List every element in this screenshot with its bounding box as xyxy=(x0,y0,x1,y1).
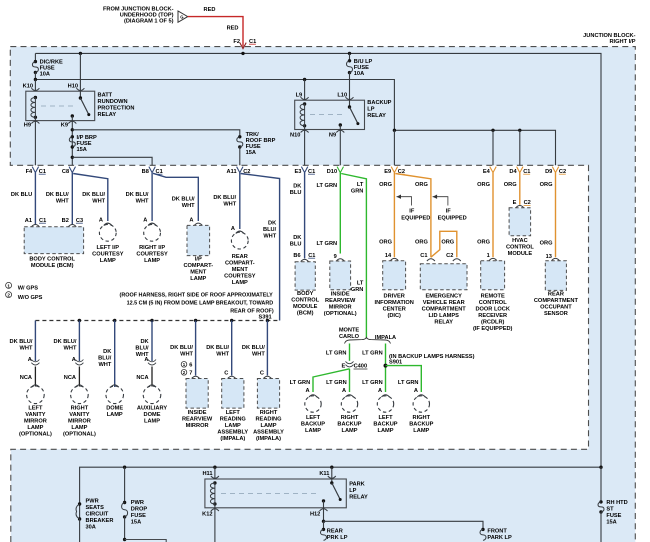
wire: C8 branch to left I/P courtesy lamp xyxy=(73,174,108,222)
svg-text:MIRROR: MIRROR xyxy=(186,423,209,429)
wire: D9 to rear compartment occupant sensor pin 13 (org) xyxy=(555,173,557,258)
inside rearview mirror box xyxy=(186,379,208,409)
node: feed from top xyxy=(599,466,602,469)
svg-text:REAR: REAR xyxy=(232,254,248,260)
node: L9 tap xyxy=(303,78,306,81)
svg-text:WHT: WHT xyxy=(98,362,111,368)
svg-text:LP: LP xyxy=(367,107,374,113)
svg-text:REARVIEW: REARVIEW xyxy=(182,417,213,423)
svg-text:N9: N9 xyxy=(329,132,336,138)
svg-text:LEFT: LEFT xyxy=(28,406,43,412)
wire+lamp: right vanity mirror lamp (optional) xyxy=(78,321,80,362)
svg-text:WHT: WHT xyxy=(92,199,105,205)
svg-text:PWR: PWR xyxy=(131,500,144,506)
driver information center (DIC) box xyxy=(383,261,406,290)
svg-text:LAMP: LAMP xyxy=(305,428,321,434)
svg-text:(IMPALA): (IMPALA) xyxy=(220,436,245,442)
node: H10 tap xyxy=(79,52,82,55)
svg-text:MONTE: MONTE xyxy=(339,328,360,334)
svg-text:ASSEMBLY: ASSEMBLY xyxy=(217,430,248,436)
svg-text:RELAY: RELAY xyxy=(434,319,453,325)
svg-text:GRN: GRN xyxy=(351,287,364,293)
relay: park lp relay box xyxy=(205,479,346,508)
svg-text:H12: H12 xyxy=(310,511,320,517)
svg-text:SENSOR: SENSOR xyxy=(544,311,568,317)
svg-text:C1: C1 xyxy=(420,253,427,259)
svg-text:BLU/: BLU/ xyxy=(98,356,112,362)
pin N9 xyxy=(339,125,341,165)
svg-text:PRK LP: PRK LP xyxy=(327,535,348,541)
connector D9 C2 xyxy=(552,167,558,173)
svg-text:ASSEMBLY: ASSEMBLY xyxy=(253,430,284,436)
svg-text:FUSE: FUSE xyxy=(131,513,146,519)
svg-text:B2: B2 xyxy=(62,218,69,224)
node: B8 branch xyxy=(71,156,74,159)
note: if equipped (right) xyxy=(433,197,448,206)
svg-text:K12: K12 xyxy=(202,511,212,517)
connector E9 C2 xyxy=(391,167,397,173)
svg-text:COURTESY: COURTESY xyxy=(92,251,124,257)
svg-text:L9: L9 xyxy=(296,92,303,98)
svg-text:HVAC: HVAC xyxy=(512,238,528,244)
wire: S901 to right backup lamp 2 xyxy=(386,366,422,392)
svg-text:RELAY: RELAY xyxy=(349,495,368,501)
svg-text:NCA: NCA xyxy=(64,375,76,381)
relay: backup lp relay box xyxy=(295,100,365,129)
svg-text:WHT: WHT xyxy=(136,199,149,205)
svg-text:H11: H11 xyxy=(202,471,212,477)
svg-text:K10: K10 xyxy=(23,83,33,89)
svg-text:DK BLU/: DK BLU/ xyxy=(46,192,69,198)
node: E4 tap xyxy=(491,129,494,132)
svg-text:2: 2 xyxy=(7,293,10,298)
svg-text:H9: H9 xyxy=(24,122,31,128)
wire: B8 branch to I/P compartment lamp xyxy=(153,173,198,221)
wire: bottom feed bus xyxy=(80,467,601,521)
svg-text:CIRCUIT: CIRCUIT xyxy=(86,512,109,518)
svg-text:E: E xyxy=(513,200,517,206)
svg-text:READING: READING xyxy=(220,417,247,423)
svg-text:A: A xyxy=(99,217,103,223)
wire RED from underhood junction block xyxy=(188,17,243,47)
wire: org distribution line xyxy=(394,130,555,165)
svg-text:RUNDOWN: RUNDOWN xyxy=(98,99,128,105)
svg-text:K11: K11 xyxy=(319,471,329,477)
left reading lamp assembly box xyxy=(222,379,244,409)
svg-text:LID LAMPS: LID LAMPS xyxy=(428,313,459,319)
svg-text:COURTESY: COURTESY xyxy=(224,274,256,280)
svg-text:NCA: NCA xyxy=(136,375,148,381)
svg-text:LEFT: LEFT xyxy=(306,415,321,421)
svg-text:RELAY: RELAY xyxy=(98,112,117,118)
svg-text:BACKUP: BACKUP xyxy=(367,100,391,106)
wire: C400 to right backup lamp xyxy=(349,369,351,392)
svg-text:IF: IF xyxy=(409,208,415,214)
wire: E9 branch to emergency relay C1 xyxy=(395,174,431,258)
svg-text:LAMP: LAMP xyxy=(261,423,277,429)
splice S391 dashed bus xyxy=(35,320,279,322)
node: pwr drop output xyxy=(123,538,126,541)
svg-text:1: 1 xyxy=(487,253,490,259)
svg-text:LT GRN: LT GRN xyxy=(362,351,383,357)
svg-text:CONTROL: CONTROL xyxy=(506,245,534,251)
svg-text:RH HTD: RH HTD xyxy=(606,500,627,506)
svg-text:BLU/: BLU/ xyxy=(263,227,277,233)
svg-text:S901: S901 xyxy=(389,360,402,366)
svg-text:LEFT: LEFT xyxy=(226,410,241,416)
svg-text:RED: RED xyxy=(204,7,216,13)
wire: inside rearview mirror (dk blu/wht) xyxy=(195,321,197,376)
svg-text:RED: RED xyxy=(227,26,239,32)
node: pwr drop fuse tap xyxy=(123,466,126,469)
pin H12 xyxy=(323,501,325,521)
wire: left reading lamp assembly (dk blu/wht) xyxy=(231,321,233,376)
wire: D4 to HVAC pin E (org) xyxy=(519,173,521,205)
remote control door lock receiver box xyxy=(481,261,505,290)
svg-text:COMPARTMENT: COMPARTMENT xyxy=(422,306,467,312)
relay switch xyxy=(79,96,82,99)
svg-text:ORG: ORG xyxy=(415,240,428,246)
svg-text:VEHICLE REAR: VEHICLE REAR xyxy=(423,300,465,306)
emergency vehicle rear compartment lid lamps relay box xyxy=(420,264,467,290)
connector E4 xyxy=(490,167,496,173)
svg-text:DK: DK xyxy=(140,339,149,345)
inside rearview mirror (optional) box xyxy=(330,261,351,290)
svg-text:DK BLU/: DK BLU/ xyxy=(206,345,229,351)
svg-text:REAR: REAR xyxy=(548,292,564,298)
svg-text:D9: D9 xyxy=(545,169,552,175)
node: E9 junction xyxy=(393,129,396,132)
svg-text:RIGHT: RIGHT xyxy=(71,406,89,412)
svg-text:PARK LP: PARK LP xyxy=(487,535,512,541)
svg-text:LT GRN: LT GRN xyxy=(398,380,419,386)
connector D4 C1 xyxy=(517,167,523,173)
pin K12 xyxy=(214,504,216,542)
svg-text:LT GRN: LT GRN xyxy=(290,380,311,386)
svg-text:B8: B8 xyxy=(142,169,149,175)
svg-text:WHT: WHT xyxy=(20,346,33,352)
circuit breaker: pwr seats 30A xyxy=(78,502,81,505)
svg-text:BACKUP: BACKUP xyxy=(409,421,433,427)
wire: second bus from DIC/RKE fuse to right xyxy=(34,72,36,79)
connector D10 xyxy=(337,167,343,173)
svg-text:OCCUPANT: OCCUPANT xyxy=(540,305,572,311)
svg-text:LT GRN: LT GRN xyxy=(362,380,383,386)
svg-text:ORG: ORG xyxy=(477,240,490,246)
svg-text:CONTROL: CONTROL xyxy=(479,300,507,306)
wire: D10 branch long lt grn to backup lamps xyxy=(341,174,366,339)
svg-text:LEFT I/P: LEFT I/P xyxy=(97,245,120,251)
svg-text:CONTROL: CONTROL xyxy=(291,298,319,304)
svg-text:RECEIVER: RECEIVER xyxy=(478,313,507,319)
svg-text:LAMP: LAMP xyxy=(144,419,160,425)
svg-text:RIGHT I/P: RIGHT I/P xyxy=(609,39,635,45)
svg-text:JUNCTION BLOCK-: JUNCTION BLOCK- xyxy=(583,33,635,39)
svg-text:E: E xyxy=(342,364,346,370)
fuse I/P BRP 15A xyxy=(71,135,74,138)
svg-text:VANITY: VANITY xyxy=(69,412,90,418)
svg-text:E9: E9 xyxy=(384,169,391,175)
svg-text:DK BLU/: DK BLU/ xyxy=(172,197,195,203)
svg-text:RIGHT: RIGHT xyxy=(413,415,431,421)
svg-text:WHT: WHT xyxy=(64,346,77,352)
svg-text:READING: READING xyxy=(255,417,282,423)
svg-text:ORG: ORG xyxy=(379,182,392,188)
svg-text:15A: 15A xyxy=(606,520,616,526)
wire: A11 branch down to S391 splice xyxy=(241,174,280,321)
svg-text:MENT: MENT xyxy=(232,267,249,273)
wire: E3 to BCM pin B6 (dk blu) xyxy=(304,173,306,259)
svg-text:WHT: WHT xyxy=(216,352,229,358)
svg-text:10A: 10A xyxy=(40,72,50,78)
fuse TRK/ROOF BRP 15A xyxy=(238,135,241,138)
svg-text:1: 1 xyxy=(7,283,10,288)
svg-text:DROP: DROP xyxy=(131,507,148,513)
fuse: rear prk lp (cut off) xyxy=(323,521,325,529)
svg-text:(RCDLR): (RCDLR) xyxy=(481,319,505,325)
connector A11 C2 xyxy=(237,167,243,173)
svg-text:A11: A11 xyxy=(227,169,237,175)
svg-text:BODY: BODY xyxy=(297,291,314,297)
node: D4 tap xyxy=(518,129,521,132)
svg-text:C8: C8 xyxy=(62,169,69,175)
svg-text:DK BLU/: DK BLU/ xyxy=(126,192,149,198)
svg-text:LT: LT xyxy=(357,280,364,286)
svg-text:FUSE: FUSE xyxy=(606,513,621,519)
svg-text:LT: LT xyxy=(357,182,364,188)
svg-text:CENTER: CENTER xyxy=(383,306,406,312)
svg-text:DK BLU: DK BLU xyxy=(11,192,32,198)
wire: impala branch (lt grn) to S901 xyxy=(385,344,387,393)
svg-text:ORG: ORG xyxy=(477,182,490,188)
backup relay coil xyxy=(303,102,306,105)
svg-text:EMERGENCY: EMERGENCY xyxy=(426,293,463,299)
svg-text:A1: A1 xyxy=(25,218,32,224)
svg-text:BODY CONTROL: BODY CONTROL xyxy=(29,256,75,262)
pin N10 xyxy=(304,126,306,166)
splice S901 xyxy=(384,364,388,368)
svg-text:DK: DK xyxy=(293,184,302,190)
svg-text:LAMP: LAMP xyxy=(413,428,429,434)
node: K9 branch to TRK/ROOF fuse xyxy=(71,128,74,131)
svg-text:DK: DK xyxy=(293,235,302,241)
fuse B/U LP 10A xyxy=(349,53,351,60)
svg-text:AUXILIARY: AUXILIARY xyxy=(137,406,167,412)
svg-text:10A: 10A xyxy=(354,71,364,77)
node: red feed junction xyxy=(241,52,244,55)
backup relay switch xyxy=(348,105,351,108)
wire: A11 to rear compartment courtesy lamp xyxy=(239,173,241,229)
svg-text:LT GRN: LT GRN xyxy=(326,351,347,357)
svg-text:E3: E3 xyxy=(294,169,301,175)
svg-text:EQUIPPED: EQUIPPED xyxy=(401,215,430,221)
fuse: pwr drop 15A xyxy=(124,467,126,502)
wire: K9 branch to TRK/ROOF BRP fuse xyxy=(72,130,240,137)
component box at bottom edge (cut off) xyxy=(125,540,167,542)
svg-text:F4: F4 xyxy=(26,169,33,175)
node: H11 tap xyxy=(213,466,216,469)
I/P compartment lamp box xyxy=(187,225,210,255)
svg-text:LT GRN: LT GRN xyxy=(317,183,338,189)
svg-text:(BCM): (BCM) xyxy=(297,311,314,317)
svg-text:A: A xyxy=(378,388,382,394)
svg-text:PWR: PWR xyxy=(86,499,99,505)
svg-text:CARLO: CARLO xyxy=(339,334,360,340)
svg-text:DK: DK xyxy=(268,220,277,226)
wire+lamp: auxiliary dome lamp xyxy=(151,321,153,362)
pin K9 xyxy=(71,116,73,165)
node: K10/second-bus junction xyxy=(34,78,37,81)
svg-text:PARK: PARK xyxy=(349,482,365,488)
svg-text:IF: IF xyxy=(446,208,452,214)
svg-text:ORG: ORG xyxy=(415,182,428,188)
svg-text:MIRROR: MIRROR xyxy=(24,419,47,425)
svg-text:C: C xyxy=(224,371,228,377)
footnote 1 W/ GPS xyxy=(6,282,12,288)
svg-text:15A: 15A xyxy=(77,147,87,153)
svg-text:LAMP: LAMP xyxy=(107,412,123,418)
lamp: left I/P courtesy lamp xyxy=(99,224,116,241)
connector E3 C1 xyxy=(301,167,307,173)
svg-text:BLU: BLU xyxy=(290,190,302,196)
svg-text:INSIDE: INSIDE xyxy=(188,410,207,416)
fuse: rh htd st 15A xyxy=(600,467,602,502)
svg-text:DK BLU/: DK BLU/ xyxy=(82,192,105,198)
svg-text:LAMP: LAMP xyxy=(144,258,160,264)
svg-text:(OPTIONAL): (OPTIONAL) xyxy=(324,311,357,317)
svg-text:LAMP: LAMP xyxy=(27,425,43,431)
svg-text:N10: N10 xyxy=(290,132,300,138)
svg-text:LT GRN: LT GRN xyxy=(317,241,338,247)
relay coil xyxy=(34,96,37,99)
svg-text:RIGHT I/P: RIGHT I/P xyxy=(139,245,165,251)
pin L9 xyxy=(304,80,306,101)
pin L10 xyxy=(349,73,351,107)
svg-text:W/ GPS: W/ GPS xyxy=(18,286,39,292)
body control module (BCM) box 2 xyxy=(295,262,315,290)
svg-text:MODULE (BCM): MODULE (BCM) xyxy=(31,263,74,269)
svg-text:PROTECTION: PROTECTION xyxy=(98,106,135,112)
svg-text:DK BLU/: DK BLU/ xyxy=(170,345,193,351)
svg-text:A: A xyxy=(189,217,193,223)
note: if equipped (left) xyxy=(397,197,412,206)
svg-text:RIGHT: RIGHT xyxy=(260,410,278,416)
svg-text:REMOTE: REMOTE xyxy=(481,293,505,299)
svg-text:MODULE: MODULE xyxy=(293,304,318,310)
svg-text:15A: 15A xyxy=(246,150,256,156)
svg-text:D4: D4 xyxy=(509,169,517,175)
lamp: rear compartment courtesy lamp xyxy=(231,232,248,249)
svg-text:A: A xyxy=(414,388,418,394)
svg-text:RIGHT: RIGHT xyxy=(341,415,359,421)
svg-text:BLU/: BLU/ xyxy=(135,346,149,352)
svg-text:LAMP: LAMP xyxy=(342,428,358,434)
svg-text:DRIVER: DRIVER xyxy=(384,293,405,299)
wire: E9 to DIC pin 14 (org) xyxy=(393,173,395,258)
svg-text:DK BLU/: DK BLU/ xyxy=(242,345,265,351)
wire: B8 to right I/P courtesy lamp xyxy=(151,173,153,221)
svg-text:MENT: MENT xyxy=(190,270,207,276)
pin H9 xyxy=(34,117,36,165)
svg-text:REAR: REAR xyxy=(327,529,343,535)
svg-text:LAMP: LAMP xyxy=(225,423,241,429)
svg-text:E4: E4 xyxy=(483,169,491,175)
svg-text:9: 9 xyxy=(334,254,337,260)
svg-text:W/O GPS: W/O GPS xyxy=(18,295,43,301)
fuse: front park lp (cut off) xyxy=(481,528,484,531)
svg-text:DK: DK xyxy=(103,349,112,355)
svg-text:12.5 CM (5 IN) FROM DOME LAMP: 12.5 CM (5 IN) FROM DOME LAMP BREAKOUT, … xyxy=(127,301,274,307)
svg-text:A: A xyxy=(342,388,346,394)
svg-text:VANITY: VANITY xyxy=(25,412,46,418)
svg-text:EQUIPPED: EQUIPPED xyxy=(438,215,467,221)
svg-text:WHT: WHT xyxy=(182,203,195,209)
svg-text:BREAKER: BREAKER xyxy=(86,518,114,524)
svg-text:F2: F2 xyxy=(233,39,240,45)
svg-text:G: G xyxy=(180,15,183,20)
svg-text:I/P: I/P xyxy=(195,257,202,263)
svg-text:15A: 15A xyxy=(131,520,141,526)
svg-text:ORG: ORG xyxy=(441,240,454,246)
svg-text:(OPTIONAL): (OPTIONAL) xyxy=(19,432,52,438)
wire: E4 to RCDLR pin 1 (org) xyxy=(492,173,494,258)
svg-text:MIRROR: MIRROR xyxy=(329,305,352,311)
wire: right reading lamp assembly (dk blu/wht) xyxy=(266,321,268,376)
svg-text:ORG: ORG xyxy=(504,182,517,188)
svg-text:WHT: WHT xyxy=(263,233,276,239)
pin H11 xyxy=(214,467,216,479)
relay: batt rundown protection relay box xyxy=(26,91,95,120)
park relay coil xyxy=(213,481,216,484)
svg-text:LAMP: LAMP xyxy=(71,425,87,431)
svg-text:DOME: DOME xyxy=(106,406,123,412)
wire: park output to front park lp xyxy=(324,521,484,529)
wire: C8 to BCM B2 (dk blu/wht) xyxy=(71,173,73,224)
svg-text:6: 6 xyxy=(189,363,192,369)
svg-text:B6: B6 xyxy=(293,253,300,259)
wire: monte carlo branch (lt grn) xyxy=(349,344,351,361)
svg-text:LAMP: LAMP xyxy=(378,428,394,434)
svg-text:LP: LP xyxy=(349,488,356,494)
svg-text:WHT: WHT xyxy=(252,352,265,358)
pin A1 C1 of BCM xyxy=(31,225,39,227)
node: K11 tap xyxy=(330,466,333,469)
wire: C400 to left backup lamp xyxy=(313,369,350,392)
svg-text:WHT: WHT xyxy=(223,201,236,207)
svg-text:DOME: DOME xyxy=(144,412,161,418)
pin H10 xyxy=(79,53,81,98)
svg-text:A: A xyxy=(143,217,147,223)
svg-text:A: A xyxy=(306,388,310,394)
node: park output junction xyxy=(322,520,325,523)
svg-text:BATT: BATT xyxy=(98,93,113,99)
svg-text:D10: D10 xyxy=(327,169,337,175)
svg-text:7: 7 xyxy=(189,371,192,377)
connector B8 C1 xyxy=(149,167,155,173)
svg-text:RELAY: RELAY xyxy=(367,113,386,119)
svg-text:ORG: ORG xyxy=(379,240,392,246)
svg-text:MIRROR: MIRROR xyxy=(68,419,91,425)
rear compartment occupant sensor box xyxy=(545,261,566,291)
pin K11 xyxy=(331,467,333,483)
svg-text:(DIAGRAM 1 OF 5): (DIAGRAM 1 OF 5) xyxy=(124,19,174,25)
svg-text:13: 13 xyxy=(546,254,552,260)
svg-text:GRN: GRN xyxy=(351,189,364,195)
wire: branch over to emergency relay C2 xyxy=(431,231,457,257)
svg-text:INFORMATION: INFORMATION xyxy=(375,300,414,306)
HVAC control module box xyxy=(509,208,530,236)
svg-text:LAMP: LAMP xyxy=(232,280,248,286)
